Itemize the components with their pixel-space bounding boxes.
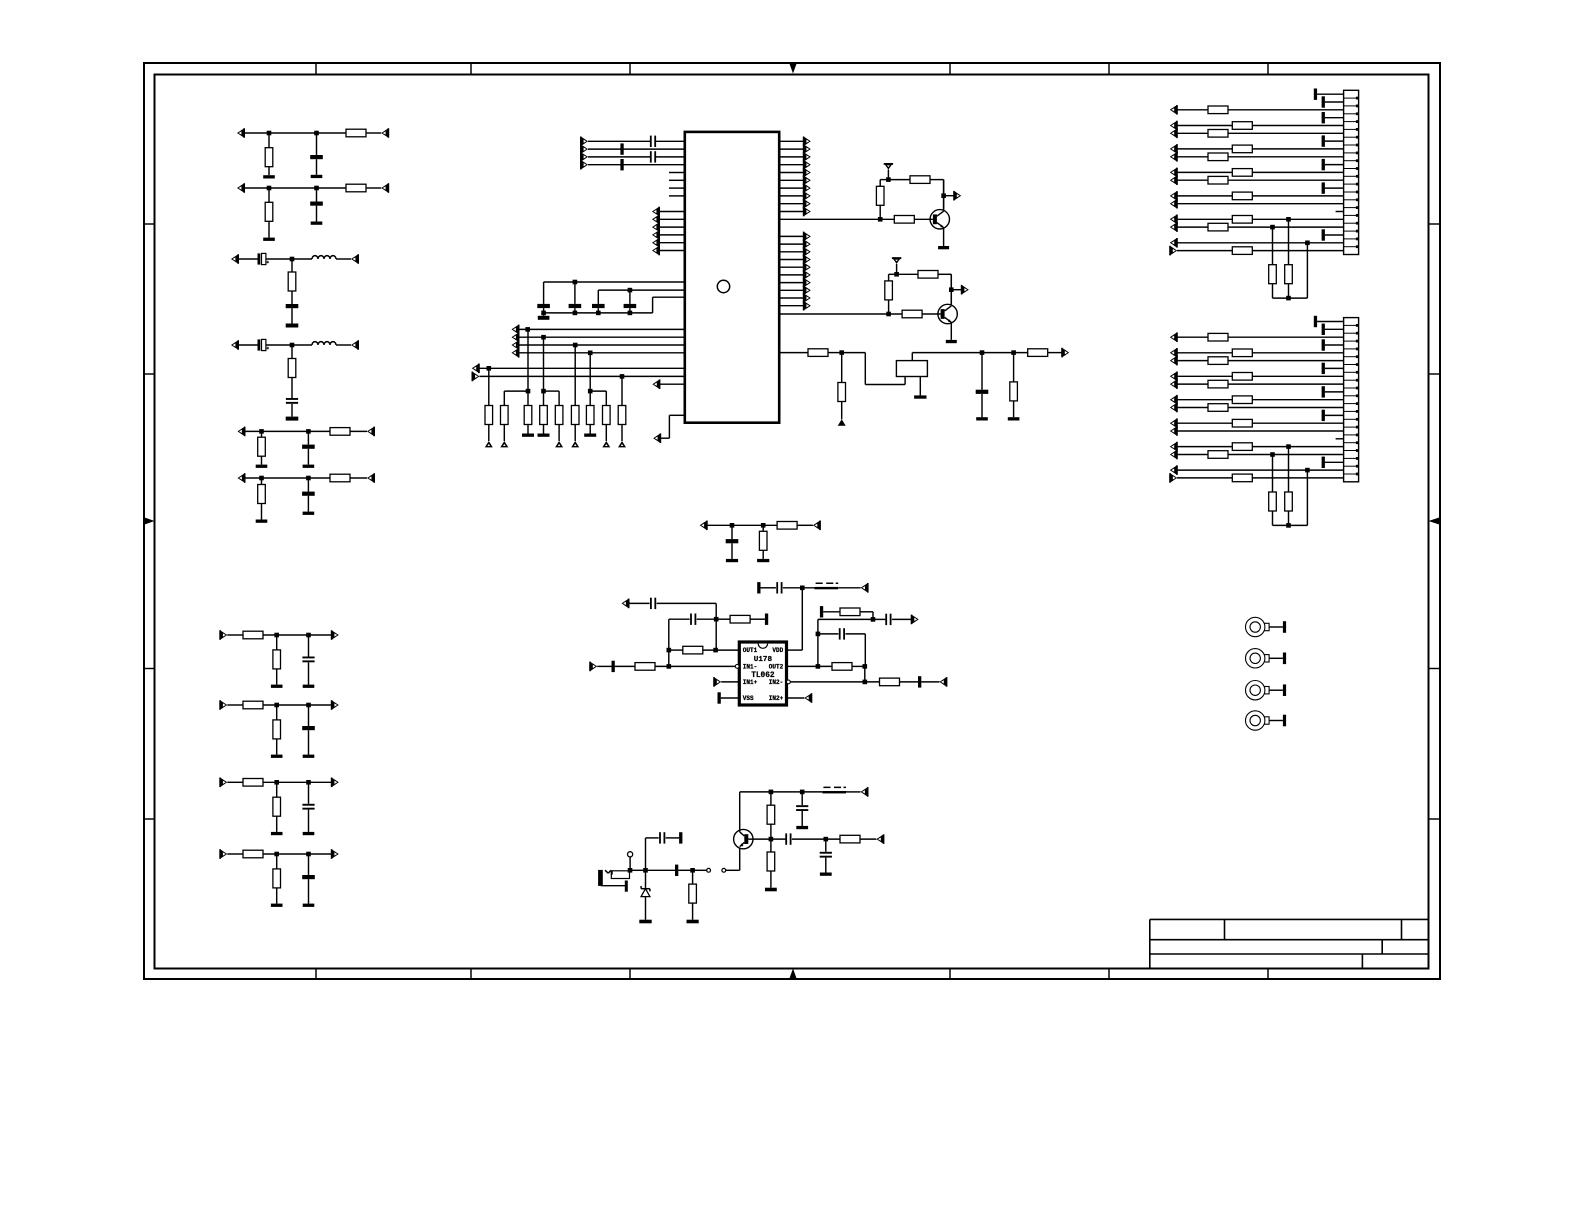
- wire: [1252, 250, 1343, 252]
- wire: [1252, 446, 1343, 448]
- port VDDNET: [861, 583, 869, 593]
- capacitor C301 polarized series: [258, 253, 266, 264]
- ground triangle: [555, 441, 563, 447]
- connector CN1: [1344, 90, 1359, 254]
- port MIN left: [700, 521, 708, 531]
- ground triangle: [618, 441, 626, 447]
- ground: [938, 246, 949, 249]
- node J6B: [306, 476, 311, 481]
- frame ticks left edge: [144, 224, 155, 819]
- wire: [801, 792, 803, 805]
- resistor RCN23: [1208, 333, 1228, 341]
- wire: [488, 425, 490, 442]
- port CN2P14: [1170, 418, 1178, 428]
- port OUT8: [331, 700, 339, 710]
- capacitor C91 plate: [620, 143, 623, 154]
- pin bubble IN2-: [787, 680, 791, 684]
- wire: [1228, 336, 1344, 338]
- port CN2P20: [1170, 465, 1178, 475]
- wire: [1177, 383, 1208, 385]
- resistor RX4: [1028, 349, 1048, 357]
- wire: [1177, 430, 1344, 432]
- wire VDD bus lower: [598, 289, 685, 291]
- port CN2P8: [1170, 372, 1178, 382]
- wire: [779, 352, 808, 354]
- wire: [656, 140, 685, 142]
- port OPP1: [713, 677, 721, 687]
- resistor R1001 series: [243, 850, 263, 858]
- wire: [1177, 446, 1232, 448]
- node: [628, 288, 633, 293]
- node J10A: [274, 852, 279, 857]
- wire: [779, 235, 803, 237]
- resistor R601 shunt: [258, 485, 266, 504]
- capacitor C302: [286, 304, 299, 308]
- wire: [779, 156, 803, 158]
- ground: [946, 340, 957, 343]
- wire: [1048, 352, 1062, 354]
- wire: [316, 159, 318, 175]
- resistor RB4: [540, 406, 548, 425]
- wire: [801, 811, 803, 826]
- wire: [1306, 470, 1308, 525]
- pin stub: [669, 179, 685, 181]
- wire: [779, 203, 803, 205]
- wire: [350, 477, 367, 479]
- ground: [303, 755, 315, 758]
- ground: [286, 417, 299, 421]
- node: [1286, 217, 1291, 222]
- wire: [336, 344, 351, 346]
- node: [1011, 350, 1016, 355]
- node: [541, 311, 546, 316]
- wire: [308, 810, 310, 832]
- port DIN1: [580, 137, 588, 147]
- pin stub: [669, 187, 685, 189]
- port OUT7: [331, 630, 339, 640]
- port CN2P5: [1170, 348, 1178, 358]
- resistor RQ1A: [910, 176, 930, 184]
- wire: [519, 344, 685, 346]
- connector CN2: [1344, 318, 1359, 482]
- wire base Q1: [779, 218, 894, 220]
- ground: [796, 826, 808, 829]
- wire: [669, 649, 683, 651]
- jack J1 sleeve wire: [601, 881, 628, 892]
- resistor R201 shunt: [265, 202, 273, 221]
- port BO8: [803, 286, 811, 296]
- capacitor C92 series: [650, 151, 656, 162]
- resistor RX2: [838, 383, 846, 402]
- node: [541, 335, 546, 340]
- port IN8 left: [219, 700, 227, 710]
- frame center mark right: [1429, 517, 1441, 525]
- wire: [779, 243, 803, 245]
- port BO7: [803, 278, 811, 288]
- wire: [770, 824, 772, 839]
- wire: [1306, 243, 1308, 298]
- ground triangle: [500, 441, 508, 447]
- capacitor C801 shunt: [302, 726, 315, 730]
- wire: [308, 705, 310, 726]
- ground: [303, 832, 315, 835]
- node: [800, 790, 805, 795]
- wire: [308, 662, 310, 684]
- wire: [1252, 195, 1343, 197]
- ground pin 19: [1322, 457, 1344, 468]
- resistor R203 series: [346, 184, 366, 192]
- wire: [574, 425, 576, 442]
- wire: [656, 156, 685, 158]
- node: [526, 389, 531, 394]
- capacitor CO1 series plate: [612, 661, 615, 672]
- resistor RO6: [880, 678, 900, 686]
- ground triangle: [602, 441, 610, 447]
- pin stub 16: [1336, 211, 1344, 213]
- ground: [765, 888, 777, 892]
- wire: [629, 857, 631, 870]
- resistor RQ2A: [918, 271, 938, 279]
- node J1A: [267, 131, 272, 136]
- wire: [692, 870, 694, 919]
- wire: [659, 211, 685, 213]
- port BO4: [803, 255, 811, 265]
- inductor L4: [312, 342, 336, 345]
- wire: [930, 180, 944, 210]
- wire: [605, 425, 607, 442]
- node: [871, 617, 876, 622]
- svg-text:IN1+: IN1+: [743, 679, 758, 686]
- port AO6: [803, 176, 811, 186]
- capacitor C402: [286, 398, 298, 404]
- wire: [574, 308, 576, 313]
- wire: [838, 587, 860, 589]
- ground: [538, 316, 550, 320]
- port MUTE: [652, 379, 660, 389]
- wire: [922, 313, 941, 315]
- port CN2P6: [1170, 356, 1178, 366]
- node: [863, 664, 868, 669]
- wire emitter Q3: [739, 848, 741, 871]
- wire: [944, 195, 954, 197]
- wire: [268, 188, 270, 202]
- node J5B: [306, 429, 311, 434]
- connector RCA4: [1246, 711, 1287, 730]
- frame center mark bottom: [789, 969, 797, 980]
- wire: [276, 635, 278, 650]
- wire: [731, 525, 733, 559]
- node: [628, 311, 633, 316]
- plus sign: [267, 347, 270, 350]
- port SW2: [512, 332, 520, 342]
- wire: [1177, 422, 1232, 424]
- wire: [1177, 399, 1232, 401]
- node N3: [769, 837, 774, 842]
- node: [596, 311, 601, 316]
- ground: [311, 222, 323, 225]
- node: [1286, 296, 1291, 301]
- wire: [951, 289, 961, 291]
- port IN3 left: [231, 254, 239, 264]
- wire: [316, 206, 318, 222]
- wire: [912, 352, 1027, 354]
- wire: [1177, 226, 1208, 228]
- wire emitter Q2: [950, 322, 952, 340]
- wire: [779, 305, 803, 307]
- filter FL1 body: [896, 361, 927, 377]
- wire: [1177, 352, 1232, 354]
- node J2A: [267, 186, 272, 191]
- node: [730, 523, 735, 528]
- frame ticks right edge: [1429, 224, 1441, 819]
- node: [1305, 468, 1310, 473]
- wire: [779, 289, 803, 291]
- wire: [779, 266, 803, 268]
- resistor RB9: [618, 406, 626, 425]
- resistor RCN117: [1232, 216, 1252, 224]
- wire: [244, 132, 346, 134]
- port TP2: [961, 285, 969, 295]
- wire: [779, 140, 803, 142]
- rail bar: [765, 614, 768, 625]
- node: [863, 680, 868, 685]
- resistor RM14: [840, 835, 860, 843]
- ground: [256, 465, 268, 468]
- node: [525, 327, 530, 332]
- wire: [1228, 132, 1344, 134]
- wire: [779, 148, 803, 150]
- wire: [1177, 171, 1232, 173]
- rail bar VSS: [718, 692, 721, 703]
- op-amp U178 labels: [743, 647, 784, 702]
- wire: [1177, 242, 1344, 244]
- resistor RB3: [524, 406, 532, 425]
- port DIN2: [580, 144, 588, 154]
- node J9B: [306, 780, 311, 785]
- wire: [1177, 454, 1208, 456]
- port CN2P21: [1169, 473, 1177, 483]
- wire: [543, 337, 545, 405]
- wire GND return: [653, 297, 685, 313]
- wire: [519, 328, 685, 330]
- port DIN4: [580, 160, 588, 170]
- node J10B: [306, 852, 311, 857]
- wire: [707, 524, 777, 526]
- wire: [1252, 477, 1343, 479]
- wire: [308, 730, 310, 754]
- resistor RB7: [586, 406, 594, 425]
- diode D1 zener: [641, 886, 650, 897]
- wire: [527, 329, 529, 405]
- port BO3: [803, 247, 811, 257]
- node: [541, 389, 546, 394]
- wire: [1177, 132, 1208, 134]
- wire: [227, 781, 243, 783]
- ground: [538, 434, 550, 437]
- node J1B: [314, 131, 319, 136]
- ground: [263, 238, 275, 241]
- node: [949, 287, 954, 292]
- port CN1P14: [1170, 191, 1178, 201]
- ground: [1008, 417, 1020, 420]
- resistor RCN218: [1208, 451, 1228, 459]
- wire: [276, 739, 278, 755]
- resistor RM2 series: [777, 522, 797, 530]
- transistor Q1: [930, 210, 949, 229]
- resistor RCN214: [1232, 419, 1252, 427]
- power VCC Q2: [892, 257, 901, 264]
- wire: [659, 242, 685, 244]
- capacitor C201 shunt: [310, 202, 323, 206]
- wire: [1288, 219, 1290, 264]
- ground: [271, 685, 283, 688]
- wire step: [842, 353, 905, 385]
- wire: [245, 430, 330, 432]
- resistor RCN29: [1208, 380, 1228, 388]
- ground: [271, 832, 283, 835]
- frame ticks top edge: [316, 63, 1268, 75]
- ground triangle: [838, 419, 846, 425]
- wire: [779, 187, 803, 189]
- wire: [779, 211, 803, 213]
- ground pin 4: [1322, 112, 1344, 123]
- wire: [660, 415, 684, 438]
- wire: [291, 345, 293, 359]
- port OPREF: [622, 599, 630, 609]
- wire rail: [740, 791, 823, 793]
- port BO6: [803, 270, 811, 280]
- port AO1: [803, 137, 811, 147]
- wire: [244, 187, 346, 189]
- title block: [1150, 919, 1429, 968]
- wire: [543, 425, 545, 434]
- port AO2: [803, 144, 811, 154]
- port CTL6: [652, 246, 660, 256]
- wire: [589, 353, 591, 406]
- wire: [888, 179, 910, 181]
- ground pin 1: [1314, 316, 1344, 327]
- port BO9: [803, 293, 811, 303]
- port CTL3: [652, 222, 660, 232]
- node: [800, 586, 805, 591]
- ground pin 4: [1322, 339, 1344, 350]
- pin stub: [669, 172, 685, 174]
- wire: [268, 167, 270, 176]
- port CN1P17: [1170, 215, 1178, 225]
- wire: [668, 650, 670, 666]
- capacitor CM12 series plate: [675, 865, 678, 876]
- resistor RO2 feedback: [683, 646, 703, 654]
- border inner frame: [155, 75, 1429, 969]
- wire: [1013, 353, 1015, 382]
- wire: [588, 148, 685, 150]
- wire: [621, 376, 623, 405]
- wire: [693, 869, 707, 871]
- wire: [779, 274, 803, 276]
- wire: [787, 588, 803, 650]
- ground: [584, 434, 596, 437]
- wire: [544, 391, 560, 405]
- wire: [1177, 336, 1208, 338]
- resistor R603 series: [330, 474, 350, 482]
- node: [1270, 225, 1275, 230]
- wire: [669, 619, 690, 650]
- wire: [519, 352, 685, 354]
- wire: [308, 854, 310, 875]
- wire: [646, 869, 693, 871]
- wire: [659, 226, 685, 228]
- wire: [1177, 469, 1344, 471]
- wire: [630, 869, 646, 871]
- capacitor CM11 series: [659, 832, 665, 843]
- wire: [790, 681, 879, 683]
- port MICOUT: [876, 834, 884, 844]
- node J4: [290, 343, 295, 348]
- inductor L3: [312, 256, 336, 259]
- capacitor CM15 shunt: [820, 852, 832, 858]
- wire: [479, 367, 685, 369]
- capacitor CO2 feedback: [690, 614, 696, 625]
- port CN1P15: [1170, 199, 1178, 209]
- wire: [726, 869, 740, 871]
- IC U177 logo circle: [717, 280, 729, 292]
- resistor RCN212: [1208, 404, 1228, 412]
- wire: [716, 618, 730, 620]
- node J8B: [306, 703, 311, 708]
- wire: [276, 669, 278, 685]
- node J8A: [274, 703, 279, 708]
- wire: [261, 431, 263, 437]
- wire: [1252, 148, 1343, 150]
- port CN2P18: [1170, 450, 1178, 460]
- node: [573, 280, 578, 285]
- node: [980, 350, 985, 355]
- resistor RCN211: [1232, 396, 1252, 404]
- port CTL1: [652, 207, 660, 217]
- wire: [1228, 360, 1344, 362]
- resistor RCN15: [1232, 122, 1252, 130]
- port CN1P6: [1170, 129, 1178, 139]
- wire: [646, 838, 659, 870]
- port IN10 left: [219, 849, 227, 859]
- capacitor CM13: [796, 805, 808, 811]
- port CTL5: [652, 238, 660, 248]
- wire: [263, 853, 333, 855]
- port IN5 left: [238, 427, 246, 437]
- wire: [1228, 454, 1344, 456]
- wire: [1228, 226, 1344, 228]
- port SW3: [512, 340, 520, 350]
- wire collector Q2: [950, 274, 952, 304]
- wire: [261, 504, 263, 520]
- wire: [914, 218, 933, 220]
- port AO9: [803, 199, 811, 209]
- wire: [1272, 455, 1274, 493]
- resistor RCN26: [1208, 357, 1228, 365]
- resistor RCN2D1: [1269, 492, 1277, 511]
- wire: [574, 282, 576, 304]
- wire: [1228, 407, 1344, 409]
- wire: [911, 353, 913, 361]
- wire: [307, 478, 309, 492]
- op-amp U178 body: [739, 642, 786, 705]
- ground: [820, 873, 832, 876]
- port SW4: [512, 348, 520, 358]
- wire: [1177, 195, 1232, 197]
- wire: [543, 282, 545, 304]
- wire emitter Q1: [943, 228, 945, 246]
- wire: [1177, 156, 1208, 158]
